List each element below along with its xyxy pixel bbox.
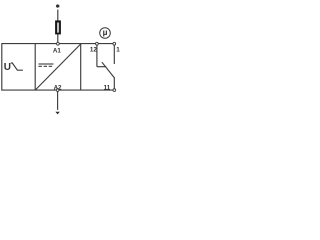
wire terminal A2 lead bbox=[57, 90, 59, 110]
svg-text:µ: µ bbox=[103, 27, 108, 37]
terminal 12 bbox=[96, 42, 99, 45]
supply voltage ramp symbol bbox=[11, 63, 23, 70]
wire terminal 12 lead bbox=[96, 44, 98, 67]
terminal 14 bbox=[113, 42, 116, 45]
contact 12 fixed bar bbox=[97, 66, 106, 68]
wire terminal 14 lead bbox=[113, 44, 115, 64]
fuse F1 body bbox=[55, 20, 61, 34]
svg-text:14: 14 bbox=[116, 46, 120, 53]
DC symbol dashed bar bbox=[39, 65, 54, 67]
device box divider bbox=[34, 44, 36, 91]
terminal A2 bbox=[56, 89, 59, 92]
contact lever bbox=[102, 62, 114, 77]
wire fuse lead bbox=[57, 10, 59, 44]
terminal 11 bbox=[113, 89, 116, 92]
micro-disconnection symbol circle bbox=[100, 28, 111, 39]
rectifier diagonal bbox=[35, 44, 80, 90]
asterisk note mark bbox=[56, 4, 59, 8]
svg-text:11: 11 bbox=[104, 85, 111, 92]
fuse F1 slot bbox=[57, 23, 59, 33]
fuse F1 element wire bbox=[57, 23, 59, 33]
svg-text:A1: A1 bbox=[53, 48, 61, 55]
device box right edge bbox=[80, 44, 82, 91]
svg-text:A2: A2 bbox=[54, 85, 62, 92]
svg-text:U: U bbox=[4, 62, 11, 73]
arrowhead A2 supply bbox=[55, 112, 59, 115]
wire terminal 11 lead bbox=[113, 77, 115, 90]
DC symbol solid bar bbox=[39, 63, 54, 65]
wire bottom rail bbox=[2, 89, 113, 91]
wire top rail bbox=[2, 43, 113, 45]
device box left edge bbox=[1, 43, 3, 90]
svg-text:12: 12 bbox=[90, 47, 97, 54]
terminal A1 bbox=[57, 42, 60, 45]
